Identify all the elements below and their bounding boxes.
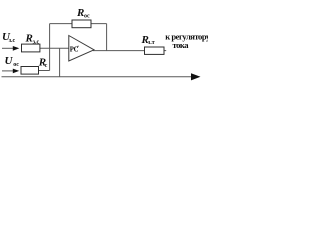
- svg-text:з.т: з.т: [148, 40, 155, 46]
- svg-text:R: R: [25, 32, 33, 44]
- svg-text:ос: ос: [13, 62, 19, 68]
- svg-text:ос: ос: [84, 13, 90, 19]
- svg-text:з.с: з.с: [9, 38, 16, 44]
- svg-text:U: U: [5, 55, 14, 67]
- svg-text:тока: тока: [173, 40, 190, 50]
- svg-text:с: с: [45, 63, 48, 69]
- svg-text:з.с: з.с: [33, 39, 40, 45]
- svg-text:РС: РС: [70, 46, 79, 53]
